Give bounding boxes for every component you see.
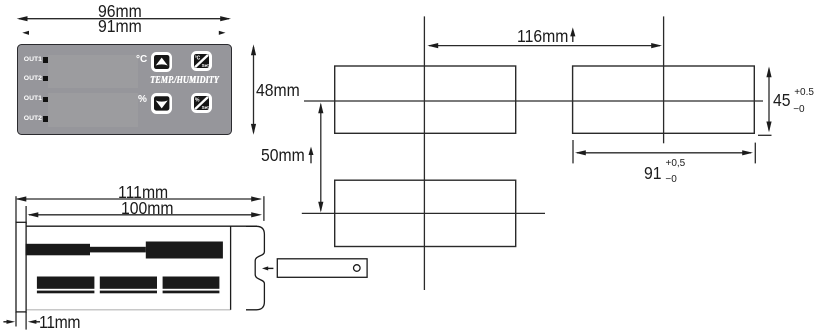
svg-text:%: % bbox=[195, 98, 200, 104]
svg-text:Set: Set bbox=[202, 63, 210, 68]
svg-text:°C: °C bbox=[195, 56, 201, 62]
svg-text:Set: Set bbox=[202, 105, 210, 110]
